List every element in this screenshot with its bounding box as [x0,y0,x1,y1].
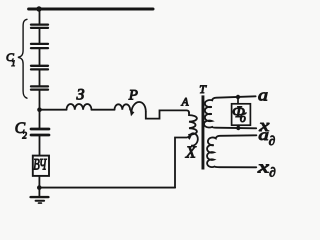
bus bar [29,8,153,11]
capacitor C1a [31,25,48,28]
wire stubs to filter box [237,97,239,128]
wire (Z to P) [92,109,115,111]
svg-text:а: а [258,127,269,144]
svg-text:Т: Т [199,82,207,96]
wire (junction to C2) [39,110,41,128]
ground [38,188,40,197]
svg-text:2: 2 [22,130,27,140]
wire step (P to A to primary) [146,110,189,118]
svg-text:Р: Р [128,87,138,103]
arrowhead of tap [187,133,193,140]
svg-text:х: х [257,157,270,176]
slider arc of P [132,102,146,112]
svg-text:б: б [240,111,247,125]
box VCh (high-frequency unit) [33,156,49,176]
brace for C1 group [18,19,27,98]
transformer primary winding [189,113,197,135]
coil P [115,104,131,109]
node x (dot) [236,126,240,130]
node: junction of C1/C2/line [37,107,42,112]
junction node on bus [36,6,41,11]
node a (dot) [236,95,240,99]
secondary winding 2 (ad-xd) [207,135,256,167]
svg-text:З: З [77,87,85,104]
primary end curl X [190,133,198,145]
transformer core [202,95,205,169]
wire (C2 to VCh box) [39,136,41,155]
wire (box to ground node) [38,176,40,188]
wire (junction to inductor Z) [42,109,67,111]
arrowhead of P slider [130,110,135,116]
secondary winding 1 (a-x) [204,96,256,128]
capacitor C2 [31,129,49,135]
ground node [37,185,42,190]
capacitor C1d [31,86,48,89]
svg-text:∂: ∂ [269,165,275,180]
svg-text:∂: ∂ [269,133,275,148]
wire riser to transformer tap [175,138,187,188]
svg-text:А: А [181,96,189,108]
capacitor C1b [31,44,48,48]
svg-text:а: а [258,86,268,105]
inductor Z [67,104,92,110]
wire (bus to C1 chain and between capacitors) [39,9,41,110]
svg-text:Х: Х [185,143,197,162]
wire (bottom bus from ground node to riser) [39,187,175,189]
filter box Fb [232,104,251,125]
svg-text:1: 1 [11,58,15,68]
capacitor C1c [31,66,48,70]
svg-text:ВЧ: ВЧ [33,157,47,174]
